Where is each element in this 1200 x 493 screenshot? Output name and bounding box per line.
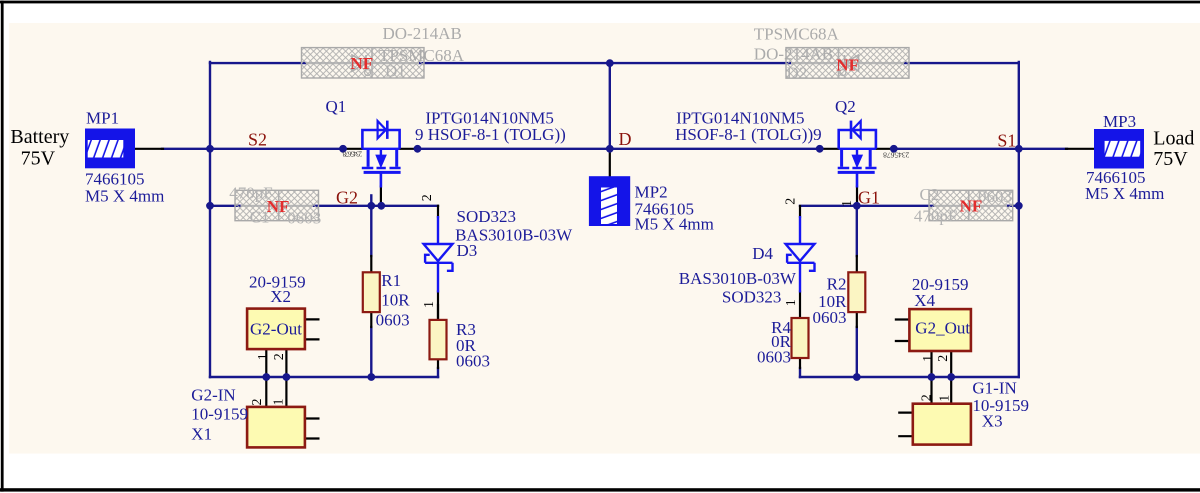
node rail R2 [853, 373, 861, 381]
node rail R1 [367, 373, 375, 381]
diode D3 (schottky BAS3010B-03W) [424, 216, 453, 293]
pin X2-1 [265, 349, 267, 377]
svg-text:DO-214AB: DO-214AB [383, 24, 462, 43]
svg-text:2: 2 [936, 355, 951, 362]
wire R1 upper [370, 206, 372, 256]
pin R1 bottom [370, 312, 372, 327]
node rail X2 pin1 [262, 373, 270, 381]
svg-text:Q2: Q2 [835, 97, 856, 116]
stub X2 nc pins [305, 319, 319, 339]
NF capacitor C2 (not fitted) [914, 185, 1013, 225]
svg-text:MP3: MP3 [1103, 112, 1136, 131]
wire top rail right segment [904, 62, 1019, 64]
wire D-node riser [609, 63, 611, 149]
sheet border frame bottom [0, 488, 1200, 491]
wire R3 bottom riser [437, 368, 439, 377]
svg-text:2: 2 [783, 198, 798, 205]
transistor Q1 [362, 121, 401, 188]
svg-text:1: 1 [784, 299, 799, 306]
NF TVS diode D2 (not fitted) [786, 48, 909, 83]
svg-text:SOD323: SOD323 [457, 207, 517, 226]
node G2 cap left [206, 202, 214, 210]
svg-text:2: 2 [420, 194, 435, 201]
wire S2 segment [162, 148, 343, 150]
svg-text:10-9159: 10-9159 [191, 404, 248, 423]
rotated pin number texts [250, 194, 953, 405]
node S1 right vertical [1015, 145, 1023, 153]
stub X4 nc pins [896, 320, 910, 342]
svg-text:HSOF-8-1 (TOLG))9: HSOF-8-1 (TOLG))9 [675, 125, 822, 144]
svg-text:D4: D4 [752, 244, 773, 263]
svg-text:D3: D3 [457, 241, 478, 260]
mounting hole MP1 [85, 129, 135, 169]
node G1 cap right [1015, 202, 1023, 210]
pin X3-1 [950, 377, 952, 404]
mounting hole MP2 [589, 176, 630, 226]
svg-text:2: 2 [272, 353, 287, 360]
svg-text:G2: G2 [336, 188, 358, 208]
svg-text:M5 X 4mm: M5 X 4mm [85, 187, 164, 206]
svg-text:Battery: Battery [10, 126, 69, 148]
node Q2 source [890, 145, 898, 153]
svg-text:75V: 75V [21, 147, 56, 169]
pin MP2 [609, 149, 611, 176]
svg-text:G1: G1 [858, 188, 880, 208]
wire right vertical [1018, 62, 1020, 377]
pin D4 bottom [799, 292, 801, 319]
big port texts [10, 126, 1194, 170]
pin Q2 drain [820, 148, 839, 150]
pin X2-2 [285, 349, 287, 377]
wire G1 row right [1007, 205, 1019, 207]
grey package texts [379, 24, 840, 65]
svg-text:G1-IN: G1-IN [972, 379, 1016, 398]
svg-text:75V: 75V [1153, 148, 1188, 170]
svg-text:2345678: 2345678 [342, 150, 362, 158]
pin MP1 [135, 148, 163, 150]
wire R2 upper [856, 206, 858, 256]
svg-text:G2-IN: G2-IN [191, 386, 235, 405]
sheet border frame top [0, 1, 1200, 4]
wire R1 lower [370, 327, 372, 377]
pin X4-2 [950, 351, 952, 377]
pin Q1 gate [380, 187, 382, 205]
svg-text:0603: 0603 [376, 311, 410, 330]
pin R3 bottom [437, 359, 439, 368]
svg-text:X3: X3 [982, 412, 1003, 431]
node top rail / D riser [606, 59, 614, 67]
net labels [248, 129, 1016, 208]
svg-text:NF: NF [960, 196, 983, 215]
svg-text:1: 1 [938, 395, 953, 402]
pin D4 top [799, 206, 801, 217]
wire G2 row left [210, 205, 241, 207]
resistor R3 [430, 320, 447, 359]
resistor R1 [363, 272, 380, 312]
svg-text:9 HSOF-8-1 (TOLG)): 9 HSOF-8-1 (TOLG)) [415, 125, 566, 144]
resistor R4 [792, 318, 809, 358]
pin X1-1 [285, 377, 287, 407]
wire R1 pin1 overshoot tick [370, 195, 372, 205]
pin R4 bottom [799, 358, 801, 368]
pin R2 bottom [856, 312, 858, 327]
pin R2 top [856, 256, 858, 272]
svg-text:1: 1 [840, 200, 855, 207]
wire D segment [418, 148, 820, 150]
svg-text:1: 1 [422, 301, 437, 308]
wire top rail left segment [210, 62, 306, 64]
node rail X4 pin1 [928, 373, 936, 381]
pin D3 anode bottom [437, 292, 439, 321]
svg-text:2: 2 [919, 394, 934, 401]
wire S1 segment [894, 148, 1067, 150]
svg-text:SOD323: SOD323 [722, 288, 782, 307]
svg-text:NF: NF [267, 197, 290, 216]
svg-text:X1: X1 [191, 424, 212, 443]
svg-text:Q1: Q1 [326, 97, 347, 116]
pin X3-2 [930, 377, 932, 404]
node G1 gate [853, 202, 861, 210]
svg-text:NF: NF [351, 54, 374, 73]
pin R3 top [437, 305, 439, 320]
svg-text:G2-Out: G2-Out [250, 320, 302, 339]
wire top rail mid segment [419, 62, 791, 64]
svg-text:C2: C2 [920, 185, 940, 204]
svg-text:R1: R1 [381, 271, 401, 290]
pin X1-2 [265, 377, 267, 407]
wire G2 row mid [313, 205, 438, 207]
svg-text:1: 1 [272, 399, 287, 406]
svg-text:Load: Load [1153, 128, 1194, 150]
wire bottom-left rail [210, 376, 438, 378]
wire R4 bottom riser [799, 368, 801, 377]
svg-text:MP1: MP1 [86, 108, 119, 127]
BLACK PIN STUBS [135, 149, 1094, 439]
node G2 R1 [367, 202, 375, 210]
svg-text:0603: 0603 [757, 347, 791, 366]
svg-text:2345678: 2345678 [883, 151, 910, 160]
svg-text:TPSMC68A: TPSMC68A [754, 24, 840, 43]
node Q2 drain [816, 145, 824, 153]
svg-text:X4: X4 [914, 291, 935, 310]
svg-text:BAS3010B-03W: BAS3010B-03W [679, 269, 797, 288]
svg-text:1: 1 [921, 355, 936, 362]
transistor Q2 [838, 121, 877, 188]
svg-text:M5 X 4mm: M5 X 4mm [635, 214, 714, 233]
connector X3 [913, 404, 971, 445]
svg-text:G2_Out: G2_Out [915, 319, 970, 338]
pin X4-1 [930, 351, 932, 377]
stub X1 nc pins [305, 419, 319, 439]
pin Q2 source [876, 148, 894, 150]
svg-text:S1: S1 [997, 131, 1016, 151]
node rail X4 pin2 [947, 373, 955, 381]
diode D4 (schottky BAS3010B-03W) [786, 216, 815, 293]
wire bottom-right rail [800, 376, 1019, 378]
resistor R2 [848, 272, 865, 312]
node Q1 source [339, 145, 347, 153]
node S2 left vertical [206, 145, 214, 153]
connector X4 [909, 309, 971, 351]
svg-text:1: 1 [256, 353, 271, 360]
node rail X2 pin2 [283, 373, 291, 381]
svg-text:0603: 0603 [287, 208, 321, 227]
svg-text:0603: 0603 [978, 187, 1012, 206]
svg-text:470pF: 470pF [914, 207, 957, 226]
pin Q2 gate [856, 187, 858, 205]
svg-text:0603: 0603 [456, 351, 490, 370]
connector X2 [247, 309, 305, 350]
svg-text:NF: NF [836, 56, 859, 75]
mounting hole MP3 [1094, 129, 1144, 169]
svg-text:M5 X 4mm: M5 X 4mm [1085, 184, 1164, 203]
svg-text:R2: R2 [827, 274, 847, 293]
wire R2 lower [856, 327, 858, 377]
svg-text:X2: X2 [270, 287, 291, 306]
wire left vertical [209, 62, 211, 377]
svg-text:D: D [619, 129, 632, 149]
svg-text:S2: S2 [248, 130, 267, 150]
NF TVS diode D1 (not fitted) [302, 48, 425, 81]
sheet border frame left [1, 1, 4, 492]
pin MP3 [1066, 148, 1094, 150]
pin Q1 drain [400, 148, 418, 150]
node Q1 drain [414, 145, 422, 153]
svg-text:10R: 10R [381, 291, 410, 310]
node D centre [606, 145, 614, 153]
stub X3 nc pins [899, 413, 913, 437]
NF capacitor C1 (not fitted) [229, 184, 321, 228]
navy reference texts [85, 97, 1164, 443]
wire G1 row [800, 205, 934, 207]
pin D3 cathode top [437, 206, 439, 217]
svg-text:2: 2 [250, 399, 265, 406]
node G2 gate [377, 202, 385, 210]
pin Q1 source [343, 148, 362, 150]
connector X1 [247, 407, 305, 448]
pin R1 top [370, 256, 372, 272]
svg-text:0603: 0603 [813, 308, 847, 327]
